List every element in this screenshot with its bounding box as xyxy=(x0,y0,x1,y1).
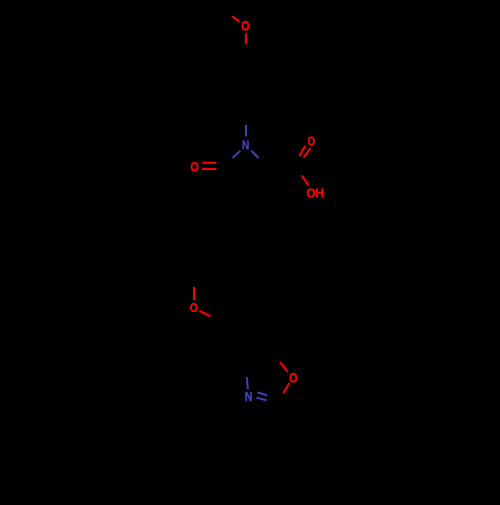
bond N=C2 double, N halves (benzoxazole) xyxy=(257,392,267,395)
svg-text:O: O xyxy=(190,300,198,315)
svg-text:O: O xyxy=(190,158,198,174)
bond N-C4, N half (lactam) xyxy=(233,151,241,158)
bond C7a-O, O half (benzoxazole) xyxy=(280,362,288,372)
bond CH3-C half (methoxy carbon side) xyxy=(225,10,232,16)
svg-text:O: O xyxy=(308,135,316,149)
bond CH2-O, O half (ether) xyxy=(193,287,195,300)
bond aryl-N, N half (lactam) xyxy=(245,125,247,137)
bond C2-COOH xyxy=(267,165,294,168)
bond aryl-N carbon half xyxy=(245,115,247,125)
lactam ring carbon bonds xyxy=(225,158,268,190)
bond O-C2, O half (benzoxazole) xyxy=(283,383,289,393)
bond C=O carbon halves (lactam) xyxy=(216,162,224,164)
benzoxazole fused carbons xyxy=(247,347,280,364)
phenoxy ring xyxy=(220,318,266,372)
svg-text:N: N xyxy=(245,390,253,404)
bond CH3-O, O half (methoxy) xyxy=(232,16,239,22)
svg-text:OH: OH xyxy=(306,185,324,200)
benzene ring (4-methoxyphenyl) xyxy=(220,55,272,115)
bond O-aryl, O half (methoxy) xyxy=(245,33,247,44)
bond N-C2, N half (lactam) xyxy=(251,151,258,158)
chain C3 to phenoxy ring xyxy=(194,190,246,274)
svg-text:O: O xyxy=(241,18,249,33)
svg-text:N: N xyxy=(242,139,249,153)
bond O-aryl, O half (ether) xyxy=(199,311,210,317)
bond C-OH, O half (carboxyl) xyxy=(302,175,308,185)
bond C3a-N, N half (benzoxazole) xyxy=(247,377,248,389)
bond C4=O double, O halves (lactam ketone) xyxy=(202,162,216,164)
svg-text:O: O xyxy=(289,370,298,385)
bond C=O double, O halves (carboxyl) xyxy=(299,146,305,156)
bond CH2-O carbon half (ether) xyxy=(193,274,195,287)
